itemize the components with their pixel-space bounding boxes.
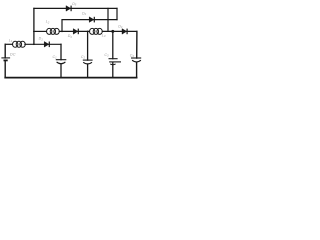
junction node at x33.9 lower xyxy=(33,44,35,46)
capacitor C4 xyxy=(131,58,141,62)
svg-text:D4: D4 xyxy=(118,24,123,29)
diode D3 xyxy=(73,29,78,35)
wire C1 branch xyxy=(60,44,62,59)
junction node at x112.8 xyxy=(111,30,114,33)
diode D1 xyxy=(44,42,49,48)
wire C2 branch xyxy=(87,31,89,60)
svg-text:C3: C3 xyxy=(104,53,109,58)
junction node at x62 mid xyxy=(61,31,63,33)
svg-text:D1: D1 xyxy=(39,37,44,42)
inductor L2 xyxy=(47,28,60,34)
wire top rail xyxy=(34,7,117,9)
wire bottom input y44.3 xyxy=(5,43,12,45)
diode D5 xyxy=(66,6,71,12)
wire right edge riser xyxy=(136,31,138,58)
wire mid horizontal right segment xyxy=(102,30,137,32)
svg-text:DC: DC xyxy=(10,52,16,57)
capacitor C1 xyxy=(56,60,67,64)
junction node at x87.6 xyxy=(87,31,89,33)
svg-text:D2: D2 xyxy=(82,11,87,16)
svg-text:D3: D3 xyxy=(68,34,73,39)
svg-text:L3: L3 xyxy=(102,33,106,38)
diode D4 xyxy=(122,29,127,35)
svg-text:D5: D5 xyxy=(72,2,77,7)
svg-text:C1: C1 xyxy=(53,55,58,60)
inductor L1 xyxy=(13,41,26,47)
svg-text:L2: L2 xyxy=(46,20,50,25)
wire mid horizontal left segment xyxy=(34,30,47,32)
svg-text:C2: C2 xyxy=(81,55,86,60)
wire left riser x34 xyxy=(33,8,35,44)
wire second rail y19.9 xyxy=(62,20,117,32)
wire source vertical xyxy=(4,44,6,58)
inductor L3 xyxy=(90,28,103,34)
svg-text:L1: L1 xyxy=(9,38,13,43)
wire right edge below C4 xyxy=(136,62,138,77)
wire vertical x108 from top rail to mid wire xyxy=(107,8,109,31)
wire ground rail xyxy=(5,77,136,79)
diode D2 xyxy=(89,17,94,23)
wire C3 branch xyxy=(112,31,114,58)
wire jog from top rail down to second rail at x117 xyxy=(116,8,118,19)
capacitor C2 xyxy=(83,60,93,64)
capacitor C3 xyxy=(109,59,122,65)
svg-text:C4: C4 xyxy=(130,53,135,58)
junction node at x33.9 mid xyxy=(33,31,35,33)
battery V1 DC source xyxy=(1,58,10,61)
